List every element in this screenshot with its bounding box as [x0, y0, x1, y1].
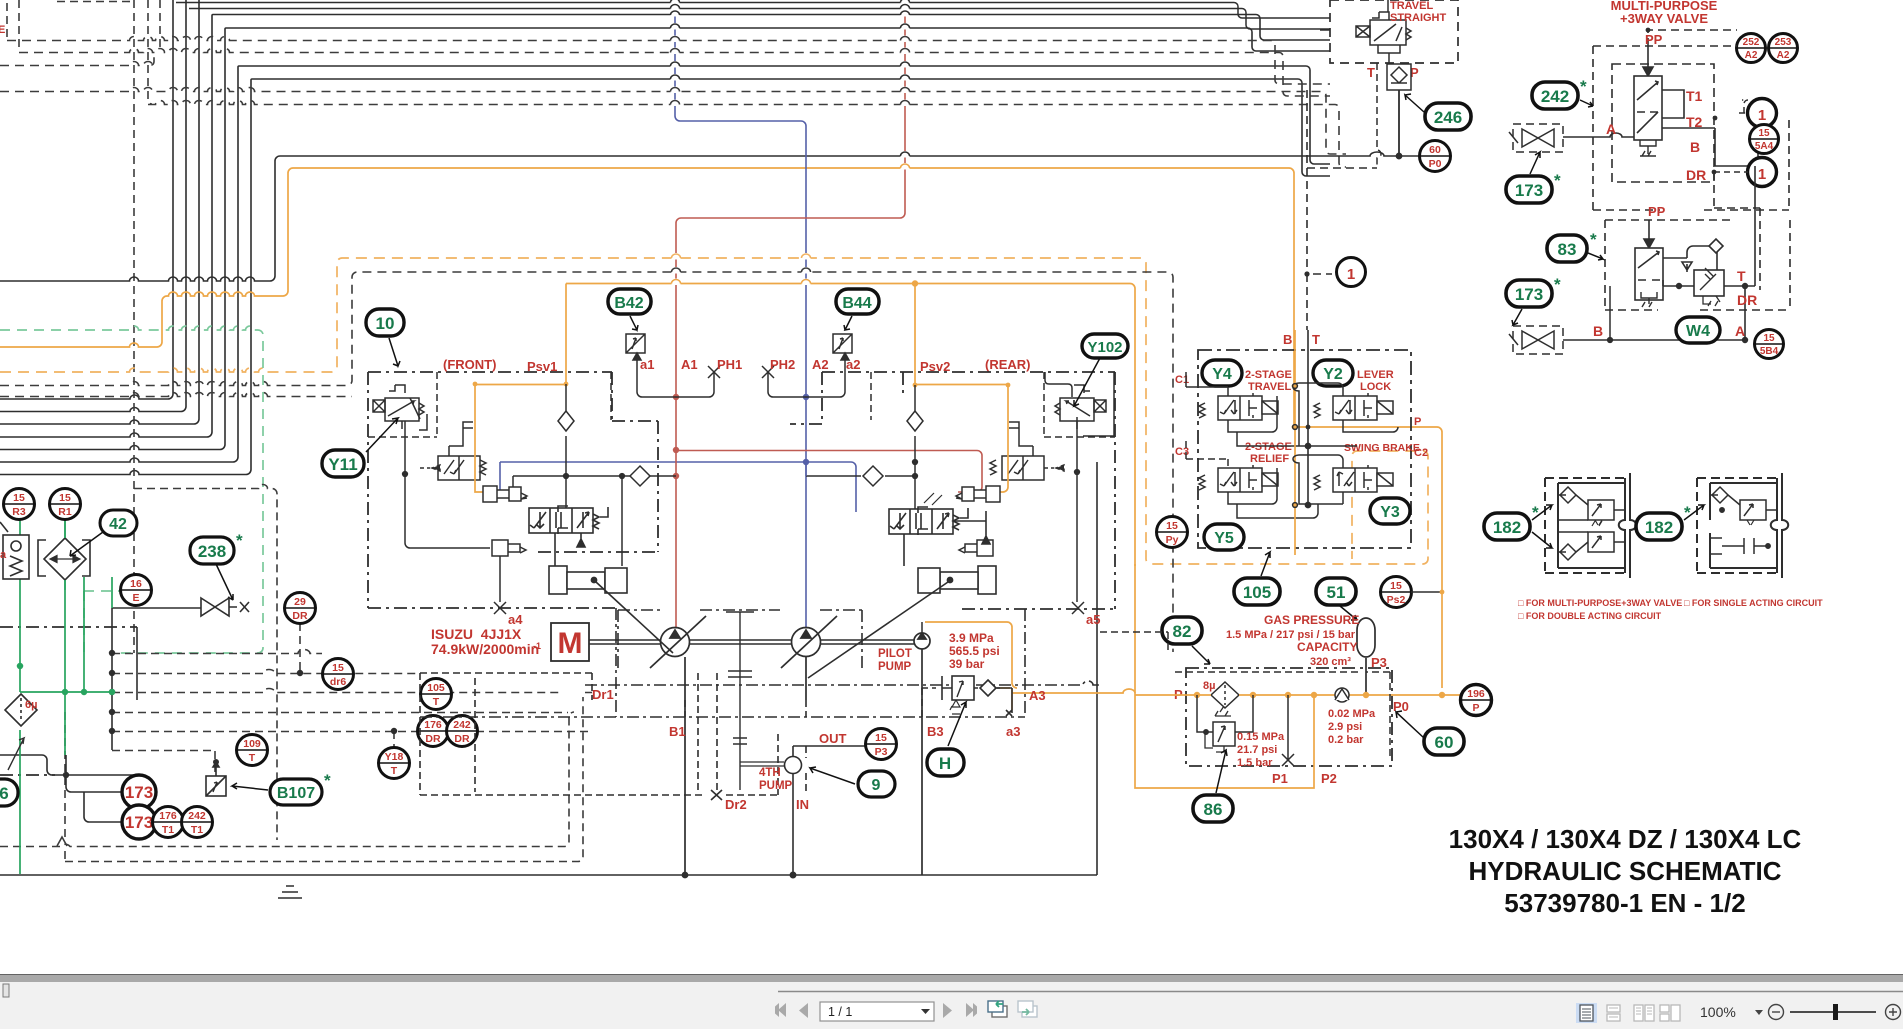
svg-text:R1: R1: [58, 506, 72, 518]
svg-text:C1: C1: [1175, 374, 1189, 386]
svg-text:15: 15: [1166, 520, 1178, 532]
svg-text:PILOT: PILOT: [878, 648, 912, 660]
svg-text:6µ: 6µ: [25, 699, 37, 711]
svg-text:LEVER: LEVER: [1357, 369, 1394, 381]
svg-text:P: P: [1472, 702, 1479, 714]
port a5: [1072, 602, 1084, 614]
svg-text:2-STAGE: 2-STAGE: [1245, 441, 1292, 453]
svg-text:15: 15: [1758, 128, 1770, 139]
solenoid valve 242: [1530, 46, 1758, 166]
svg-text:□ FOR DOUBLE ACTING CIRCUIT: □ FOR DOUBLE ACTING CIRCUIT: [1518, 611, 1662, 621]
svg-text:15: 15: [1390, 580, 1402, 592]
label circle 15/Ps2: [1381, 577, 1445, 608]
wire: top-left corner dashed stubs: [7, 0, 160, 653]
svg-text:C3: C3: [1175, 446, 1189, 458]
svg-text:T: T: [433, 696, 440, 708]
svg-text:SWING BRAKE: SWING BRAKE: [1344, 442, 1420, 454]
svg-text:565.5 psi: 565.5 psi: [949, 644, 1000, 658]
filter 42: [38, 518, 90, 590]
callout 246: [1405, 94, 1471, 130]
svg-text:3.9 MPa: 3.9 MPa: [949, 631, 994, 645]
svg-text:238: 238: [198, 542, 226, 561]
net: green dashed return line: [0, 326, 263, 653]
net: big orange dashed pilot box: [0, 258, 1428, 564]
FRONT pump regulator box: [368, 372, 658, 608]
svg-text:*: *: [1554, 171, 1561, 190]
net: big black dashed pilot box: [0, 272, 1173, 652]
svg-text:1.5 bar: 1.5 bar: [1237, 757, 1273, 769]
242 valve dashed enclosure: [1593, 30, 1789, 210]
182 relief pack (double acting): [1545, 473, 1636, 578]
label circle 1 (left): [1337, 258, 1366, 287]
svg-text:B: B: [1593, 323, 1603, 339]
needle valve 173 (upper): [1509, 124, 1563, 152]
svg-text:Py: Py: [1166, 534, 1179, 546]
callout Y4: [1202, 360, 1242, 386]
svg-text:15: 15: [875, 732, 887, 744]
solenoid valve Y2: [1299, 383, 1398, 446]
travel straight valve box: [1330, 0, 1458, 63]
svg-text:10: 10: [376, 314, 395, 333]
svg-text:320 cm³: 320 cm³: [1310, 656, 1351, 668]
svg-text:246: 246: [1434, 108, 1462, 127]
svg-text:21.7 psi: 21.7 psi: [1237, 744, 1277, 756]
svg-text:196: 196: [1467, 688, 1485, 700]
svg-text:T: T: [1367, 65, 1375, 80]
svg-text:A2: A2: [1745, 50, 1758, 61]
svg-text:P: P: [1414, 416, 1421, 428]
legend texts: [1518, 598, 1823, 621]
label circle 15/dr6: [323, 659, 354, 690]
check valve under travel straight: [1377, 63, 1411, 168]
svg-text:PUMP: PUMP: [759, 780, 793, 792]
svg-text:T1: T1: [1686, 88, 1703, 104]
svg-text:dr6: dr6: [330, 676, 347, 688]
pilot pump: [685, 622, 930, 878]
callout 173 (upper): [122, 775, 156, 839]
svg-text:DR: DR: [292, 610, 308, 622]
svg-text:74.9kW/2000min: 74.9kW/2000min: [431, 641, 539, 657]
svg-text:5A4: 5A4: [1755, 141, 1774, 152]
solenoid valve Y5: [1186, 437, 1318, 518]
swash servo (rear): [808, 493, 996, 678]
svg-text:B42: B42: [614, 295, 643, 312]
label circle 176/DR: [418, 716, 449, 747]
label circle 196/P: [1461, 685, 1492, 716]
svg-text:83: 83: [1558, 240, 1577, 259]
svg-text:a3: a3: [1006, 724, 1020, 739]
solenoid valve 83: [1635, 166, 1755, 342]
svg-text:LOCK: LOCK: [1360, 381, 1391, 393]
callout 83: [1547, 230, 1603, 262]
wire bus: left-edge horizontal bundle turning up into vertical bundle: [0, 0, 1330, 475]
restrictor B107: [206, 760, 226, 796]
solenoid manifold dash-dot frame: [1198, 350, 1411, 548]
svg-text:GAS PRESSURE: GAS PRESSURE: [1264, 613, 1359, 627]
label circle 15/R3: [4, 489, 81, 520]
182 relief pack (single acting): [1697, 473, 1788, 578]
label circle 29/DR: [285, 593, 316, 624]
wire: dashed pilot rails across the top: [0, 37, 1346, 168]
svg-text:T1: T1: [162, 824, 174, 836]
label circle 109/T: [237, 735, 268, 766]
drive shaft: [278, 612, 916, 898]
svg-text:A2: A2: [812, 357, 829, 372]
pilot shift valve (front): [403, 382, 569, 548]
svg-text:1: 1: [1347, 266, 1355, 283]
callout Y11: [322, 418, 398, 477]
wire: long black rail to port P0 (60): [0, 88, 1419, 281]
svg-text:*: *: [1580, 77, 1587, 96]
svg-text:1 / 1: 1 / 1: [828, 1005, 852, 1019]
callout 82: [1162, 617, 1210, 664]
svg-text:39 bar: 39 bar: [949, 657, 985, 671]
label circle 15/P3: [866, 729, 897, 760]
svg-text:Y3: Y3: [1380, 504, 1400, 521]
svg-text:182: 182: [1493, 518, 1521, 537]
label circle 105/T: [421, 679, 452, 710]
wire: orange pilot loop: [1135, 564, 1460, 788]
solenoid valve Y11 (prop reducing): [368, 372, 437, 437]
callout 238: [190, 531, 243, 600]
svg-text:51: 51: [1327, 583, 1346, 602]
callout W4: [1676, 317, 1720, 343]
callout 182 (left): [1484, 503, 1552, 548]
accumulator 51: [1357, 618, 1375, 694]
callout 182 (right): [1636, 503, 1704, 540]
svg-text:1: 1: [1758, 107, 1766, 124]
svg-text:173: 173: [125, 783, 153, 802]
svg-text:15: 15: [332, 662, 344, 674]
needle valve 238: [201, 598, 249, 616]
wire: orange pilot supply A3: [925, 622, 1135, 710]
svg-text:A: A: [1606, 121, 1616, 137]
wire: B1/B3 drain rail: [685, 688, 1012, 717]
svg-text:42: 42: [109, 516, 127, 533]
svg-text:DR: DR: [425, 733, 441, 745]
main control spool (front): [529, 506, 608, 568]
callout Y3: [1370, 498, 1410, 524]
svg-text:PUMP: PUMP: [878, 661, 912, 673]
relief valve Pa (left edge): [0, 522, 29, 579]
svg-text:A3: A3: [1029, 688, 1046, 703]
svg-text:5B4: 5B4: [1760, 346, 1779, 357]
svg-text:*: *: [1554, 275, 1561, 294]
pilot relief valve 3.9MPa: [922, 676, 1000, 714]
svg-text:HYDRAULIC SCHEMATIC: HYDRAULIC SCHEMATIC: [1469, 856, 1782, 886]
svg-text:P0: P0: [1429, 158, 1442, 170]
solenoid valve Y102 (prop reducing): [1044, 372, 1115, 437]
svg-text:182: 182: [1645, 518, 1673, 537]
regulator 0.15MPa: [1197, 695, 1294, 766]
port a2 plumbing: [762, 352, 871, 420]
svg-text:T1: T1: [191, 824, 203, 836]
pilot filter box 82: [1186, 668, 1392, 766]
svg-text:173: 173: [125, 813, 153, 832]
svg-text:Dr2: Dr2: [725, 797, 747, 812]
svg-text:P3: P3: [875, 746, 888, 758]
callout Y102: [1074, 334, 1128, 406]
svg-text:B: B: [1690, 139, 1700, 155]
pump 2 (rear): [781, 616, 837, 668]
label circle 242/T1: [182, 807, 213, 838]
svg-text:RELIEF: RELIEF: [1250, 453, 1289, 465]
svg-text:PH2: PH2: [770, 357, 795, 372]
svg-text:29: 29: [294, 596, 306, 608]
svg-text:6: 6: [0, 784, 9, 803]
callout 173 (upper right): [1506, 152, 1561, 203]
svg-text:0.15 MPa: 0.15 MPa: [1237, 731, 1285, 743]
svg-text:173: 173: [1515, 285, 1543, 304]
label circle 242/DR: [447, 716, 478, 747]
callout H: [927, 702, 966, 776]
svg-text:P2: P2: [1321, 771, 1337, 786]
svg-text:+3WAY VALVE: +3WAY VALVE: [1620, 11, 1708, 26]
svg-text:ISUZU 4JJ1X: ISUZU 4JJ1X: [431, 626, 522, 642]
4th pump: [420, 673, 868, 875]
svg-text:T: T: [249, 752, 256, 764]
solenoid valve Y3: [1299, 455, 1393, 504]
svg-text:E: E: [0, 24, 5, 36]
svg-text:W4: W4: [1686, 323, 1710, 340]
svg-text:8µ: 8µ: [1203, 680, 1215, 692]
svg-text:60: 60: [1429, 144, 1441, 156]
wire: blue pilot line A2: [500, 0, 856, 630]
svg-text:242: 242: [188, 810, 206, 822]
label circle 60/P0: [1420, 141, 1451, 172]
low pressure check 0.02MPa: [1335, 688, 1349, 702]
svg-text:176: 176: [159, 810, 177, 822]
svg-text:176: 176: [424, 719, 442, 731]
net: dashed drain header to 15/dr6 and boxes bottom-left: [0, 485, 592, 862]
svg-text:A: A: [1735, 323, 1745, 339]
callout Y2: [1313, 360, 1353, 386]
svg-text:Y5: Y5: [1214, 530, 1234, 547]
svg-text:*: *: [324, 771, 331, 790]
svg-text:15: 15: [13, 492, 25, 504]
port labels row: [640, 357, 1031, 374]
net: lever-lock dashed riser: [1307, 90, 1377, 330]
svg-text:E: E: [132, 592, 139, 604]
main control spool (rear): [889, 507, 990, 566]
filter 6u (engine): [5, 694, 37, 770]
REAR pump regulator box: [790, 372, 1115, 609]
svg-text:0.2 bar: 0.2 bar: [1328, 734, 1364, 746]
label circle 15/5B4: [1755, 330, 1784, 359]
solenoid valve Y4: [1186, 372, 1313, 446]
svg-text:15: 15: [59, 492, 71, 504]
label circle 15/Py: [1157, 517, 1188, 548]
svg-text:A1: A1: [681, 357, 698, 372]
filter 8u: [1211, 682, 1239, 708]
callout Y5: [1204, 524, 1244, 550]
svg-text:4TH: 4TH: [759, 767, 781, 779]
pilot piston pair (rear): [956, 372, 1114, 602]
callout 105: [1234, 552, 1280, 605]
svg-text:TRAVEL: TRAVEL: [1248, 381, 1291, 393]
svg-text:PP: PP: [1645, 32, 1663, 47]
wire hop bumps: [671, 0, 910, 285]
svg-text:a4: a4: [508, 612, 523, 627]
svg-text:86: 86: [1204, 800, 1223, 819]
pilot shift valve (rear): [913, 383, 1080, 492]
callout 173 (lower right): [1506, 275, 1561, 325]
callout 60: [1396, 711, 1464, 755]
wire bus: two topmost solid rails with right-end elbows down: [176, 3, 1330, 30]
svg-text:82: 82: [1173, 622, 1192, 641]
svg-text:60: 60: [1435, 733, 1454, 752]
port a4: [494, 602, 506, 614]
bell housing dash-dot: [420, 608, 1100, 717]
svg-text:R3: R3: [12, 506, 26, 518]
svg-text:253: 253: [1775, 37, 1792, 48]
callout B107: [232, 771, 331, 805]
svg-text:a5: a5: [1086, 612, 1100, 627]
restrictor B42: [626, 334, 645, 360]
svg-text:105: 105: [427, 682, 445, 694]
svg-text:Dr1: Dr1: [592, 687, 614, 702]
svg-text:a2: a2: [846, 357, 860, 372]
svg-text:T: T: [1312, 332, 1320, 347]
swash servo (front): [549, 566, 673, 653]
svg-text:9: 9: [872, 777, 881, 794]
svg-text:B1: B1: [669, 724, 686, 739]
svg-text:T: T: [391, 765, 398, 777]
svg-text:Y2: Y2: [1323, 366, 1343, 383]
svg-text:TRAVEL: TRAVEL: [1390, 0, 1433, 12]
svg-text:PP: PP: [1648, 204, 1666, 219]
svg-text:(FRONT): (FRONT): [443, 357, 496, 372]
svg-text:a: a: [0, 549, 7, 561]
svg-text:OUT: OUT: [819, 731, 847, 746]
svg-text:DR: DR: [1686, 167, 1706, 183]
title block: [1449, 824, 1802, 918]
svg-text:2-STAGE: 2-STAGE: [1245, 369, 1292, 381]
svg-text:T: T: [1737, 268, 1746, 284]
svg-text:B107: B107: [277, 785, 315, 802]
svg-text:100%: 100%: [1700, 1004, 1736, 1020]
pump 1 (front): [650, 616, 706, 668]
wire: red pilot line A1: [674, 0, 982, 630]
svg-text:Y18: Y18: [385, 751, 404, 763]
motor M with engine text: [431, 623, 589, 661]
callout B44: [836, 289, 879, 330]
svg-text:DR: DR: [454, 733, 470, 745]
callout 6 (left edge, clipped): [0, 779, 18, 806]
svg-text:Ps2: Ps2: [1387, 594, 1406, 606]
svg-text:Y4: Y4: [1212, 366, 1232, 383]
wire: orange supply rail: [0, 168, 1294, 566]
label circle 176/T1: [153, 807, 184, 838]
svg-text:*: *: [1590, 230, 1597, 249]
svg-text:IN: IN: [796, 797, 809, 812]
check valve (rear feed): [806, 385, 923, 509]
callout B42: [608, 289, 651, 330]
svg-text:242: 242: [1541, 87, 1569, 106]
callout 42: [70, 510, 137, 556]
svg-text:a1: a1: [640, 357, 654, 372]
svg-text:A2: A2: [1777, 50, 1790, 61]
svg-text:109: 109: [243, 738, 261, 750]
label circle 16/E: [121, 575, 478, 779]
svg-text:2.9 psi: 2.9 psi: [1328, 721, 1362, 733]
label circles 252/A2 253/A2: [1737, 34, 1798, 63]
callout 51: [1316, 578, 1357, 620]
svg-text:1: 1: [1758, 166, 1766, 183]
svg-text:(REAR): (REAR): [985, 357, 1031, 372]
svg-text:P1: P1: [1272, 771, 1288, 786]
svg-text:□ FOR MULTI-PURPOSE+3WAY VALVE: □ FOR MULTI-PURPOSE+3WAY VALVE: [1518, 598, 1682, 608]
svg-text:T2: T2: [1686, 114, 1703, 130]
svg-text:M: M: [558, 627, 583, 660]
svg-text:53739780-1 EN - 1/2: 53739780-1 EN - 1/2: [1504, 888, 1745, 918]
needle valve 173 (lower): [1509, 286, 1745, 354]
net: P3 dashed branch: [1100, 632, 1390, 760]
callout 9: [810, 767, 895, 797]
83 valve dashed enclosure: [1605, 172, 1790, 310]
callout 10: [366, 309, 404, 366]
svg-text:130X4 / 130X4 DZ / 130X4 LC: 130X4 / 130X4 DZ / 130X4 LC: [1449, 824, 1802, 854]
wire: block internal risers: [1293, 330, 1343, 555]
restrictor B44: [833, 334, 852, 360]
svg-text:242: 242: [453, 719, 471, 731]
svg-text:Y11: Y11: [328, 455, 357, 474]
callout 242: [1532, 77, 1593, 109]
callout 173 (lower): [122, 805, 156, 839]
check valve (front feed): [513, 384, 676, 566]
pilot piston pair (front): [483, 486, 527, 602]
svg-text:H: H: [939, 754, 951, 773]
callout 86: [1193, 750, 1233, 822]
svg-text:-1: -1: [533, 641, 541, 651]
svg-text:105: 105: [1243, 583, 1271, 602]
net: engine compartment dash-dot border: [0, 627, 137, 775]
svg-text:16: 16: [130, 578, 142, 590]
svg-text:C2: C2: [1414, 447, 1428, 459]
svg-text:STRAIGHT: STRAIGHT: [1390, 12, 1447, 24]
svg-text:PH1: PH1: [717, 357, 742, 372]
wire: green tank lines: [18, 518, 115, 874]
svg-text:*: *: [236, 531, 243, 550]
svg-text:Psv1: Psv1: [527, 359, 557, 374]
port a1 plumbing: [611, 352, 720, 420]
svg-text:B: B: [1283, 332, 1292, 347]
wire: left collector verticals to drain headers: [0, 462, 1097, 878]
svg-text:□ FOR SINGLE ACTING CIRCUIT: □ FOR SINGLE ACTING CIRCUIT: [1684, 598, 1823, 608]
label circle 15/R1: [50, 489, 81, 520]
svg-text:B44: B44: [842, 295, 871, 312]
svg-text:15: 15: [1763, 333, 1775, 344]
label circle 1 / 15-5A4 / 1 (right column): [1712, 99, 1779, 187]
svg-text:B3: B3: [927, 724, 944, 739]
svg-text:173: 173: [1515, 181, 1543, 200]
svg-text:Y102: Y102: [1087, 339, 1122, 356]
label circle Y18/T: [379, 748, 410, 779]
svg-text:252: 252: [1743, 37, 1760, 48]
svg-text:CAPACITY: CAPACITY: [1297, 640, 1357, 654]
svg-text:0.02 MPa: 0.02 MPa: [1328, 708, 1376, 720]
svg-text:DR: DR: [1737, 292, 1757, 308]
